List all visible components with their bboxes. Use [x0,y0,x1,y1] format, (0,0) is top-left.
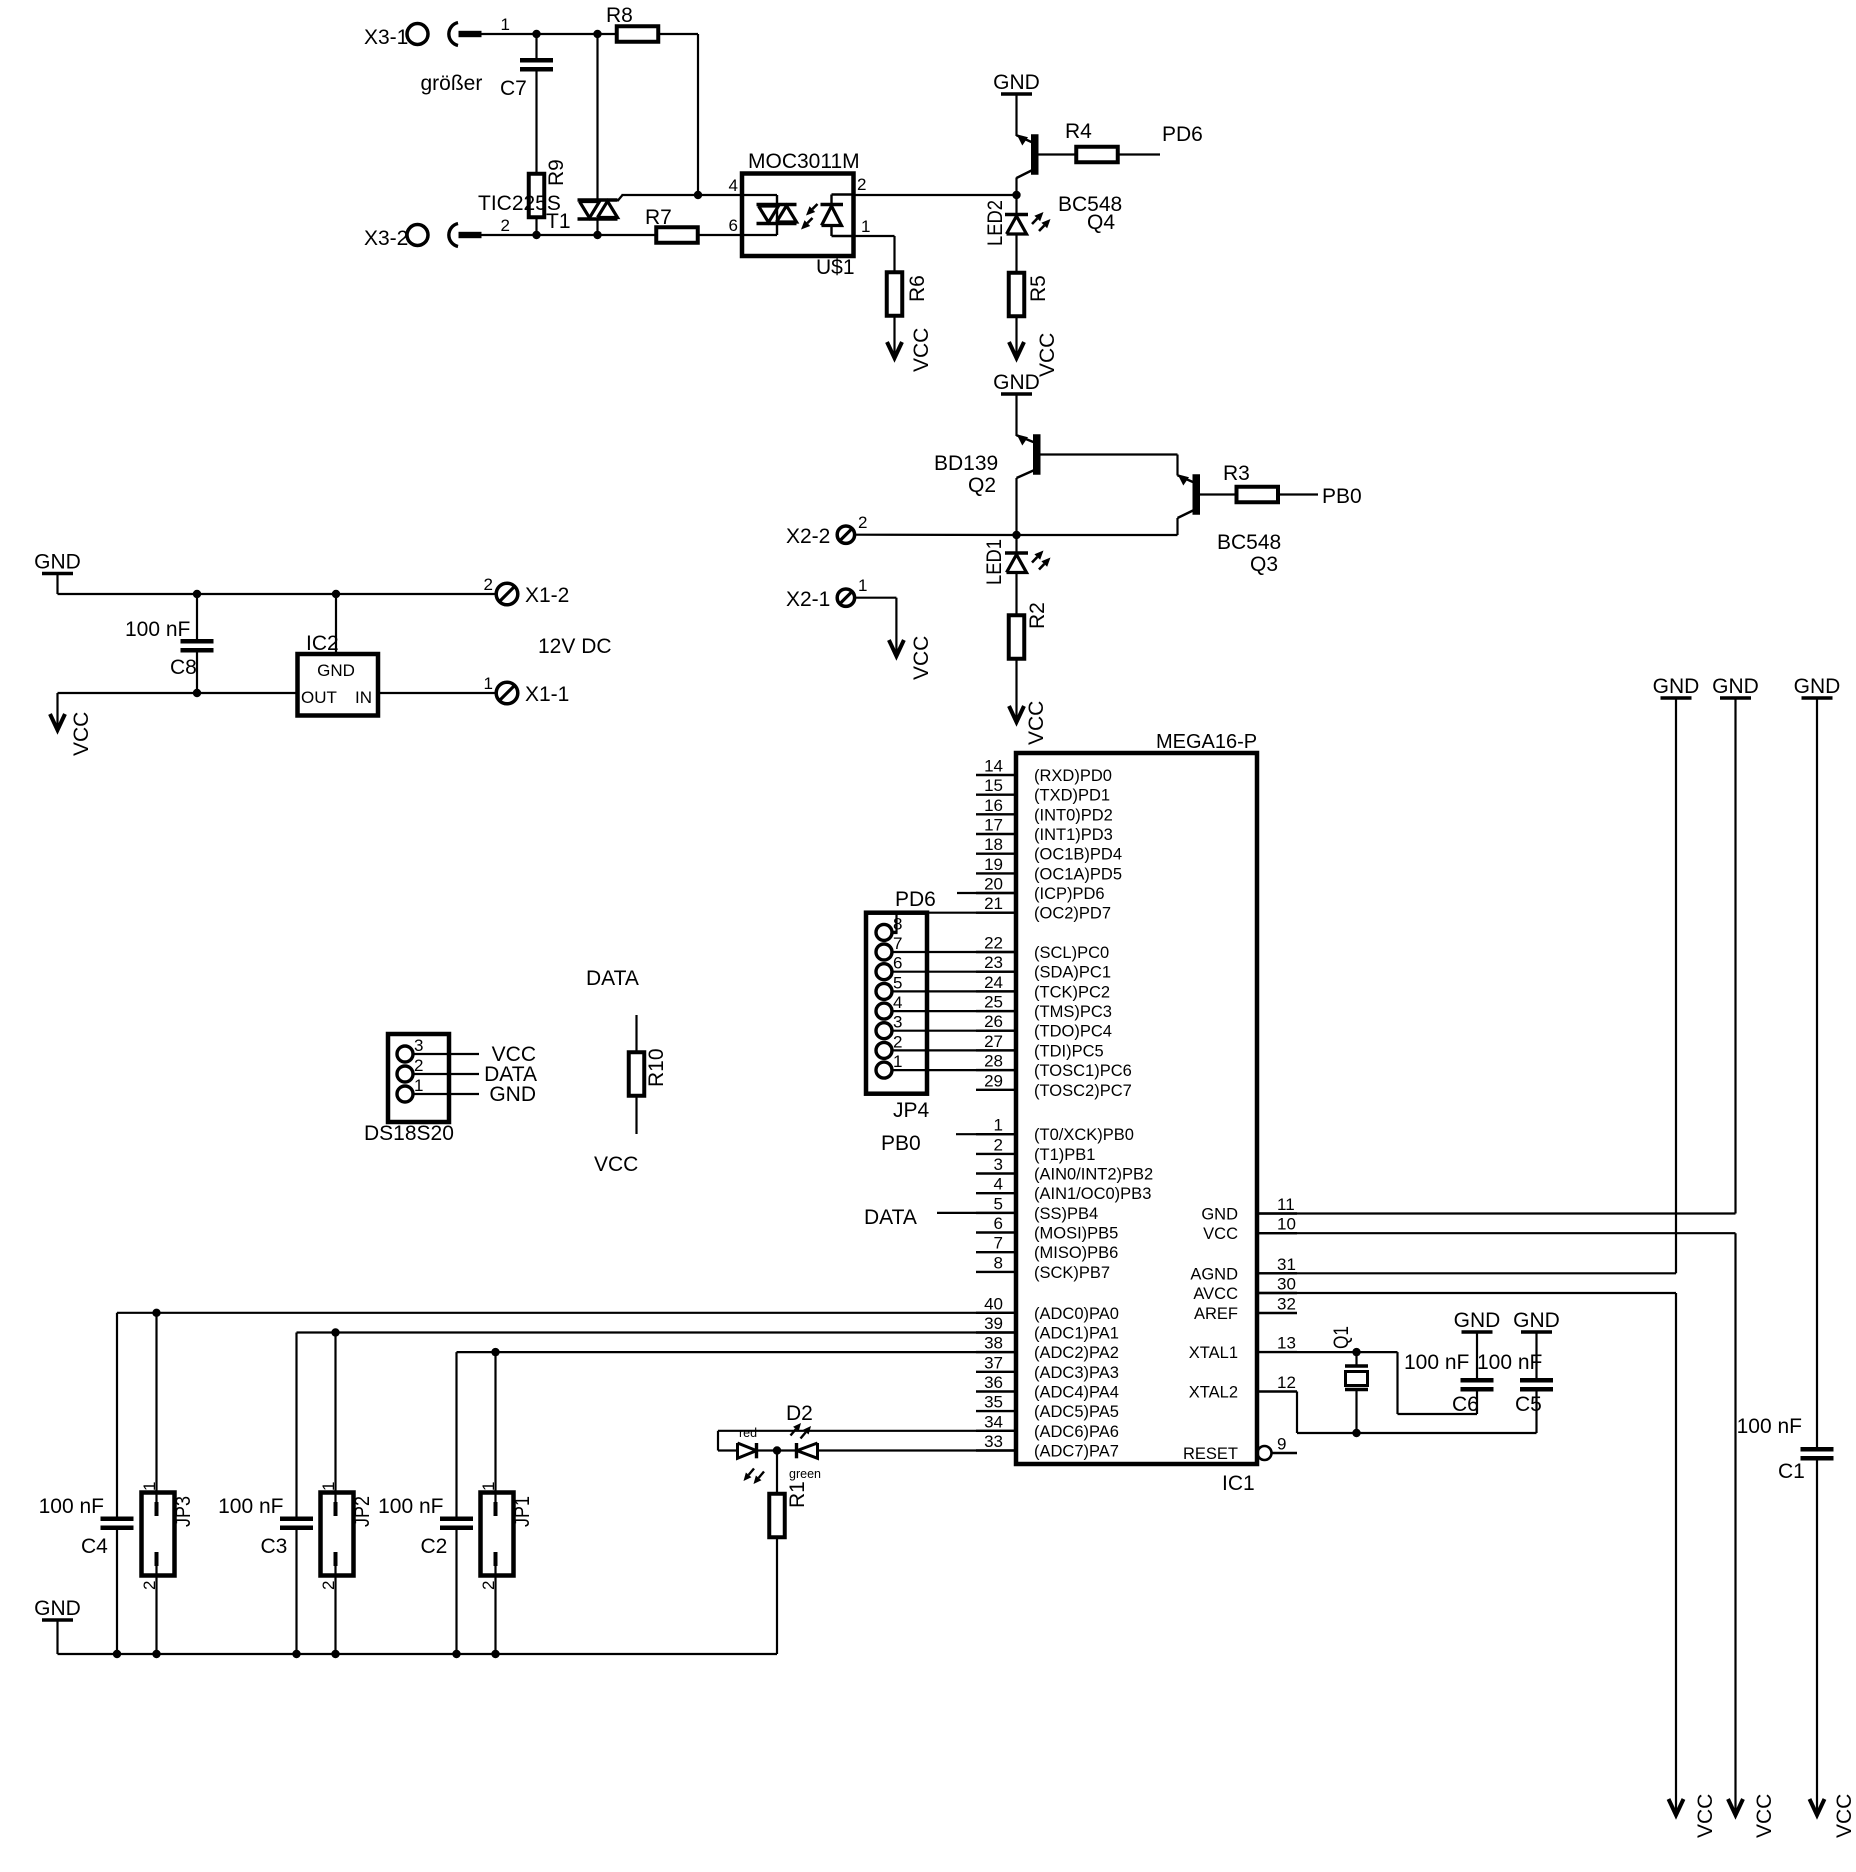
svg-text:GND: GND [993,71,1040,94]
svg-text:3: 3 [414,1036,423,1055]
svg-text:(TDI)PC5: (TDI)PC5 [1034,1042,1104,1060]
wire JP4 pin5 to IC1 [892,990,1016,992]
svg-text:MEGA16-P: MEGA16-P [1156,731,1257,753]
pin 7 (MISO)PB6 of IC1 [976,1234,1118,1263]
svg-text:32: 32 [1277,1295,1296,1314]
wire R4 to PD6 [1118,153,1160,155]
wire JP2 vertical top [334,1333,336,1517]
svg-text:C5: C5 [1515,1393,1542,1416]
wire D2 left tie [717,1431,719,1451]
wire JP1 vertical bottom [494,1566,496,1654]
ground at bottom left [34,1597,81,1620]
resistor R4 [1076,147,1118,163]
node junction JP3 tap [152,1309,160,1317]
wire JP4 pin3 to IC1 [892,1030,1016,1032]
crystal Q1 [1345,1366,1368,1390]
pin 6 (MOSI)PB5 of IC1 [976,1214,1118,1243]
capacitor C6 [1461,1378,1494,1392]
svg-text:(INT1)PD3: (INT1)PD3 [1034,826,1113,844]
wire VCC to IC2 OUT [58,692,298,694]
wire R1 to ground rail [776,1537,778,1654]
jumper JP3 [142,1493,175,1576]
svg-text:(MOSI)PB5: (MOSI)PB5 [1034,1225,1118,1243]
svg-text:18: 18 [984,835,1003,854]
svg-text:(TDO)PC4: (TDO)PC4 [1034,1023,1112,1041]
wire C4 bottom [116,1530,118,1654]
wire R5 to VCC [1015,316,1017,357]
wire R8 to MOC pin4 [659,33,699,35]
resistor R2 [1009,615,1025,659]
svg-text:4: 4 [994,1175,1003,1194]
VCC symbol below X2-1 [889,636,933,680]
svg-text:VCC: VCC [1753,1794,1776,1838]
svg-text:100 nF: 100 nF [39,1495,104,1518]
resistor R6 [887,272,903,316]
svg-text:7: 7 [893,934,902,953]
svg-text:GND: GND [1794,675,1841,698]
node junction R9/X3-2 [532,231,540,239]
svg-text:OUT: OUT [301,688,337,707]
wire C1 rail lower [1816,1461,1818,1815]
light arrows inside U$1 [801,204,818,230]
svg-text:22: 22 [984,934,1003,953]
wire IC1 pin11 GND [1257,1212,1736,1214]
svg-text:29: 29 [984,1071,1003,1090]
svg-text:1: 1 [501,15,510,34]
wire AVCC rail [1675,1293,1677,1814]
node junction C8 bottom [193,689,201,697]
ground above C5 [1513,1309,1560,1332]
pin 16 (INT0)PD2 of IC1 [976,796,1113,825]
pin 23 (SDA)PC1 of IC1 [976,953,1111,982]
svg-text:1: 1 [994,1116,1003,1135]
wire GND to C5 [1535,1332,1537,1378]
svg-text:(SCK)PB7: (SCK)PB7 [1034,1264,1110,1282]
wire node to green LED [777,1449,797,1451]
svg-text:31: 31 [1277,1255,1296,1274]
svg-text:AREF: AREF [1194,1305,1238,1323]
svg-text:IC2: IC2 [306,632,339,655]
wire AGND rail [1675,698,1677,1273]
connector X3-1 pin [364,15,510,49]
ground above Q2 [993,371,1040,394]
svg-text:(AIN1/OC0)PB3: (AIN1/OC0)PB3 [1034,1185,1151,1203]
wire JP4 pin7 to IC1 [892,951,1016,953]
wire Q1 top lead [1355,1352,1357,1366]
svg-text:GND: GND [34,1597,81,1620]
wire GND to Q4 [1015,94,1017,136]
node junction on ground rail [292,1650,300,1658]
pin 11 GND of IC1 [1201,1195,1297,1224]
svg-text:16: 16 [984,796,1003,815]
VCC symbol AVCC rail [1669,1794,1718,1838]
svg-text:Q3: Q3 [1250,553,1278,576]
node junction Q1 top [1352,1348,1360,1356]
svg-text:PB0: PB0 [881,1132,921,1155]
svg-text:X3-1: X3-1 [364,26,408,49]
svg-text:C3: C3 [261,1535,288,1558]
svg-text:40: 40 [984,1294,1003,1313]
svg-text:MOC3011M: MOC3011M [748,150,860,173]
svg-text:36: 36 [984,1373,1003,1392]
wire IC2 GND pin [335,594,337,656]
svg-text:T1: T1 [546,210,571,233]
wire C8 bottom [196,653,198,694]
pin 14 (RXD)PD0 of IC1 [976,757,1112,786]
wire IC1 pin13 XTAL1 net [1297,1351,1398,1353]
svg-text:R8: R8 [606,4,633,27]
transistor Q3 BC548 [1178,474,1201,518]
svg-text:AGND: AGND [1190,1265,1238,1283]
wire bottom ground rail [58,1653,778,1655]
wire GND to C6 [1476,1332,1478,1378]
wire Q4 base to R4 [1039,153,1077,155]
pin 4 of JP4 [876,993,902,1019]
svg-text:(TOSC2)PC7: (TOSC2)PC7 [1034,1082,1132,1100]
svg-text:LED1: LED1 [983,539,1006,585]
svg-text:2: 2 [994,1135,1003,1154]
svg-text:30: 30 [1277,1275,1296,1294]
wire Q4 collector to node [1015,178,1017,196]
node junction on ground rail [491,1650,499,1658]
svg-text:GND: GND [993,371,1040,394]
triac T1 [578,200,618,219]
svg-text:(ADC5)PA5: (ADC5)PA5 [1034,1403,1119,1421]
resistor R3 [1237,487,1279,503]
svg-text:100 nF: 100 nF [1737,1415,1802,1438]
svg-text:2: 2 [484,575,493,594]
svg-text:C8: C8 [170,656,197,679]
wire triac vertical bottom [596,219,598,235]
svg-text:Q1: Q1 [1330,1326,1353,1349]
svg-text:(T1)PB1: (T1)PB1 [1034,1146,1095,1164]
svg-text:(ADC7)PA7: (ADC7)PA7 [1034,1443,1119,1461]
LED LED2 [984,200,1051,246]
pin 26 (TDO)PC4 of IC1 [976,1012,1112,1041]
wire C2 vertical [455,1352,457,1516]
svg-text:1: 1 [479,1482,498,1491]
svg-text:C1: C1 [1778,1460,1805,1483]
wire JP4 pin2 to IC1 [892,1049,1016,1051]
wire IC1 pin38 to C2/JP1 [457,1351,1017,1353]
ground above Q4 [993,71,1040,94]
node junction on ground rail [452,1650,460,1658]
wire X3-1 to R8 [482,33,618,35]
connector DS18S20 [388,1034,449,1122]
pin 35 (ADC5)PA5 of IC1 [976,1393,1119,1422]
svg-text:100 nF: 100 nF [378,1495,443,1518]
svg-text:14: 14 [984,757,1003,776]
svg-text:2: 2 [858,513,867,532]
svg-text:JP3: JP3 [172,1496,195,1527]
svg-text:(INT0)PD2: (INT0)PD2 [1034,806,1113,824]
pin 5 of JP4 [876,973,902,999]
wire node down to R1 [776,1451,778,1495]
ground at IC2 [34,551,81,574]
svg-text:(ADC6)PA6: (ADC6)PA6 [1034,1423,1119,1441]
svg-text:(TXD)PD1: (TXD)PD1 [1034,787,1110,805]
svg-text:(TMS)PC3: (TMS)PC3 [1034,1003,1112,1021]
node junction Q1 bottom [1352,1429,1360,1437]
svg-text:(TOSC1)PC6: (TOSC1)PC6 [1034,1062,1132,1080]
svg-text:(OC2)PD7: (OC2)PD7 [1034,905,1111,923]
pin 12 XTAL2 of IC1 [1189,1373,1297,1402]
wire C7 to R9 [535,68,537,175]
LED D2 red half [738,1443,757,1458]
wire Q2 collector to node [1015,478,1017,535]
pin 27 (TDI)PC5 of IC1 [976,1032,1104,1061]
svg-text:X2-2: X2-2 [786,525,830,548]
ground rail GND [1712,675,1759,698]
pin 37 (ADC3)PA3 of IC1 [976,1353,1119,1382]
pin 30 AVCC of IC1 [1193,1275,1297,1304]
svg-text:GND: GND [1653,675,1700,698]
svg-text:R2: R2 [1026,602,1049,629]
svg-text:(ADC3)PA3: (ADC3)PA3 [1034,1364,1119,1382]
wire IC1 pin10 VCC [1257,1232,1736,1234]
svg-text:VCC: VCC [1025,701,1048,745]
svg-text:23: 23 [984,953,1003,972]
wire red LED to node [758,1449,777,1451]
svg-text:DATA: DATA [586,967,639,990]
svg-text:(RXD)PD0: (RXD)PD0 [1034,767,1112,785]
svg-text:24: 24 [984,973,1003,992]
pin 22 (SCL)PC0 of IC1 [976,934,1109,963]
VCC symbol VCC rail [1728,1794,1776,1838]
wire U$1 pin1 to R6 [854,235,895,237]
pin 20 (ICP)PD6 of IC1 [976,875,1105,904]
svg-text:39: 39 [984,1314,1003,1333]
wire R9 bottom [535,217,537,235]
wire DS18S20 pin2 DATA [413,1073,479,1075]
wire PD6 to IC1 pin20 [957,892,1016,894]
wire PB0 to IC1 pin1 [956,1133,1016,1135]
wire C3 bottom [295,1530,297,1654]
wire X2-2 to node [855,534,1017,536]
pin 38 (ADC2)PA2 of IC1 [976,1334,1119,1363]
wire JP1 vertical top [494,1352,496,1516]
VCC symbol below R6 [887,328,933,372]
svg-text:2: 2 [893,1032,902,1051]
wire GND stem [56,1620,58,1654]
svg-text:LED2: LED2 [984,200,1007,246]
svg-text:VCC: VCC [910,636,933,680]
wire VCC rail lower [1734,1233,1736,1814]
resistor R9 [529,174,545,218]
jumper JP1 [481,1493,514,1576]
wire DS18S20 pin3 VCC [413,1053,479,1055]
svg-text:C7: C7 [500,77,527,100]
wire C8 top [196,594,198,639]
svg-text:15: 15 [984,776,1003,795]
pin 21 (OC2)PD7 of IC1 [976,894,1111,923]
svg-text:(SS)PB4: (SS)PB4 [1034,1205,1098,1223]
svg-text:27: 27 [984,1032,1003,1051]
svg-text:(ADC1)PA1: (ADC1)PA1 [1034,1325,1119,1343]
svg-text:6: 6 [729,216,738,235]
svg-text:U$1: U$1 [816,256,855,279]
svg-text:6: 6 [994,1214,1003,1233]
capacitor C3 [280,1517,313,1531]
svg-text:7: 7 [994,1234,1003,1253]
svg-text:5: 5 [893,973,902,992]
wire C3 vertical [295,1333,297,1517]
pin 31 AGND of IC1 [1190,1255,1297,1284]
svg-text:Q2: Q2 [968,474,996,497]
pin 28 (TOSC1)PC6 of IC1 [976,1052,1132,1081]
node junction Q4/LED2/U$1-2 [1012,191,1020,199]
svg-text:1: 1 [861,217,870,236]
svg-text:VCC: VCC [1203,1225,1238,1243]
node junction on ground rail [152,1650,160,1658]
resistor R1 [769,1494,785,1538]
pin 40 (ADC0)PA0 of IC1 [976,1294,1119,1323]
svg-text:1: 1 [414,1076,423,1095]
svg-text:(T0/XCK)PB0: (T0/XCK)PB0 [1034,1126,1134,1144]
svg-text:20: 20 [984,875,1003,894]
wire IC1 pin30 AVCC [1257,1292,1676,1294]
svg-text:3: 3 [893,1013,902,1032]
svg-text:XTAL2: XTAL2 [1189,1384,1238,1402]
svg-text:2: 2 [414,1056,423,1075]
svg-text:VCC: VCC [70,712,93,756]
resistor R10 [629,1052,645,1096]
pin 33 (ADC7)PA7 of IC1 [976,1432,1119,1461]
svg-text:(ADC4)PA4: (ADC4)PA4 [1034,1384,1119,1402]
svg-text:D2: D2 [786,1402,813,1425]
svg-text:1: 1 [484,674,493,693]
transistor Q2 BD139 [1017,434,1041,478]
wire node to LED1 [1015,535,1017,553]
wire R6 to VCC [893,316,895,357]
ground above C6 [1454,1309,1501,1332]
pin 18 (OC1B)PD4 of IC1 [976,835,1122,864]
svg-text:(ADC0)PA0: (ADC0)PA0 [1034,1305,1119,1323]
connector X1-2 pin [496,583,518,605]
svg-text:R3: R3 [1223,462,1250,485]
pin 1 of JP4 [876,1052,902,1078]
node junction Q2/Q3/LED1/X2-2 [1012,531,1020,539]
wire U$1 pin2 to Q4 emitter node [854,194,1018,196]
svg-text:GND: GND [34,551,81,574]
svg-text:(TCK)PC2: (TCK)PC2 [1034,983,1110,1001]
svg-text:17: 17 [984,816,1003,835]
resistor R5 [1009,273,1025,317]
capacitor C2 [440,1517,473,1531]
wire Q3 emitter down-left to node [1176,518,1178,535]
svg-text:JP1: JP1 [511,1496,534,1527]
node junction JP1 tap [491,1348,499,1356]
svg-text:PD6: PD6 [895,888,936,911]
connector X2-2 pin [837,526,854,543]
svg-text:28: 28 [984,1052,1003,1071]
connector X2-1 pin [837,589,854,606]
resistor R7 [656,227,698,243]
svg-text:(MISO)PB6: (MISO)PB6 [1034,1244,1118,1262]
ground rail AGND [1653,675,1700,698]
svg-text:GND: GND [1712,675,1759,698]
svg-text:35: 35 [984,1393,1003,1412]
pin 2 (T1)PB1 of IC1 [976,1135,1095,1164]
capacitor C8 [181,639,214,653]
node junction IC2 GND tap [332,590,340,598]
pin 3 of JP4 [876,1013,902,1039]
pin 2 of JP4 [876,1032,902,1058]
pin 4 (AIN1/OC0)PB3 of IC1 [976,1175,1151,1204]
wire LED2 to R5 [1015,236,1017,274]
svg-text:26: 26 [984,1012,1003,1031]
LED LED1 [983,539,1051,585]
pin 34 (ADC6)PA6 of IC1 [976,1412,1119,1441]
wire R7 to MOC pin6 [698,234,742,236]
svg-text:DATA: DATA [864,1206,917,1229]
svg-text:1: 1 [858,576,867,595]
VCC symbol at IC2 output [50,712,93,756]
pin 8 (SCK)PB7 of IC1 [976,1253,1110,1282]
svg-text:4: 4 [893,993,902,1012]
wire GND rail upper [1734,698,1736,1214]
svg-text:1: 1 [140,1482,159,1491]
svg-text:green: green [789,1467,821,1481]
svg-text:PB0: PB0 [1322,485,1362,508]
wire Q1 bottom lead [1355,1390,1357,1434]
svg-text:VCC: VCC [1694,1794,1717,1838]
wire LED1 to R2 [1015,574,1017,616]
microcontroller IC1 MEGA16-P [1016,753,1257,1464]
pin 10 VCC of IC1 [1203,1215,1297,1244]
capacitor C5 [1520,1378,1553,1392]
svg-text:9: 9 [1277,1435,1286,1454]
svg-text:GND: GND [1201,1206,1238,1224]
svg-text:GND: GND [1513,1309,1560,1332]
VCC symbol below R2 [1009,701,1048,745]
wire triac vertical top [596,34,598,200]
photodiode inside U$1 [821,195,854,237]
svg-text:C2: C2 [421,1535,448,1558]
voltage regulator IC2 [298,654,379,716]
svg-text:C4: C4 [81,1535,108,1558]
svg-text:34: 34 [984,1412,1003,1431]
svg-text:21: 21 [984,894,1003,913]
pin 5 (SS)PB4 of IC1 [976,1194,1098,1223]
wire JP3 vertical bottom [155,1566,157,1654]
wire X2-1 to VCC [855,597,897,599]
resistor R8 [617,26,659,42]
svg-text:25: 25 [984,993,1003,1012]
wire C2 bottom [455,1530,457,1654]
wire JP4 pin8 hook [892,931,898,934]
wire Q2 base to Q3 collector [1041,453,1178,455]
svg-text:GND: GND [1454,1309,1501,1332]
svg-text:(ICP)PD6: (ICP)PD6 [1034,885,1105,903]
svg-text:JP2: JP2 [351,1496,374,1527]
svg-text:R5: R5 [1027,275,1050,302]
wire R10 to VCC label [635,1096,637,1134]
svg-text:R4: R4 [1065,120,1092,143]
wire JP3 vertical top [155,1313,157,1516]
node junction JP2 tap [331,1328,339,1336]
pin 7 of JP4 [876,934,902,960]
svg-text:(AIN0/INT2)PB2: (AIN0/INT2)PB2 [1034,1166,1153,1184]
capacitor C1 [1801,1447,1834,1461]
wire triac gate to pin4 row [618,195,623,201]
svg-text:R9: R9 [545,159,568,186]
wire pin34 rail start [718,1430,1016,1432]
svg-text:11: 11 [1277,1195,1295,1214]
node junction C8 top [193,590,201,598]
svg-text:38: 38 [984,1334,1003,1353]
wire R3 to PB0 [1278,493,1318,495]
